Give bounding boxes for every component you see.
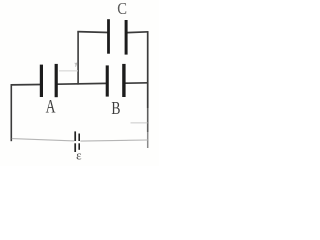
scan artifact: faint line left of right vertical [131, 122, 148, 124]
wire: middle-right segment (B right plate to right vertical) [125, 82, 148, 84]
svg-text:B: B [111, 99, 120, 118]
svg-text:A: A [46, 95, 56, 117]
wire: left vertical (down from A branch to battery level) [10, 84, 12, 141]
wire: middle-center segment (A right plate to B left plate) [57, 82, 106, 85]
wire: middle-left segment (left vertical to A left plate) [11, 84, 41, 86]
capacitor B [106, 64, 126, 97]
capacitor C [107, 19, 128, 54]
scan artifact: small speck near riser top [75, 63, 77, 67]
svg-text:C: C [117, 0, 127, 18]
wire: top-left segment (A/B junction riser corner to C left plate) [77, 31, 108, 34]
wire: vertical riser at x=78 (junction between A and B up to C branch) [77, 31, 79, 84]
wire: right vertical (top wire down past middle wire toward bottom wire) [147, 31, 149, 148]
scan artifact: faint line left of riser [59, 70, 78, 72]
capacitor A [40, 64, 58, 97]
battery (EMF source) [75, 131, 79, 152]
wire: top-right segment (C right plate to right vertical) [127, 31, 148, 34]
wire: bottom-right faint segment (battery right terminal to right vertical) [80, 140, 147, 141]
svg-text:ε: ε [76, 148, 82, 163]
wire: bottom-left faint segment (left vertical to battery left terminal) [12, 139, 74, 141]
